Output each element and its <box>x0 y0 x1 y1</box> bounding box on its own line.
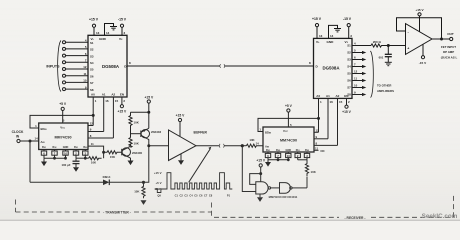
wire QA pin 12 <box>314 131 319 133</box>
mux U4 bottom pins <box>316 94 350 104</box>
+15V supply terminal (buffer) <box>176 114 186 118</box>
gate G1 NAND <box>256 182 268 194</box>
wire pin3 <box>121 27 123 35</box>
-15V supply terminal (mux U4 pin 3) <box>347 24 350 27</box>
wire +15V rail <box>148 103 150 128</box>
wire QB pin 9 <box>314 138 328 140</box>
node D out (pin 8) long line to receiver <box>124 61 318 69</box>
wire R9 tie bus <box>298 159 307 161</box>
resistor 15K (to Q1 base) <box>104 151 122 154</box>
node A0/QA junction <box>318 117 320 119</box>
ground (buffer) <box>180 154 182 160</box>
transistor Q2 2N4403 PNP <box>141 130 149 138</box>
ground (R0 bus) <box>43 158 45 161</box>
counter U5 MM74C90 (receiver) <box>263 127 314 152</box>
wire A0 <box>318 98 320 132</box>
wire buffer output <box>196 145 220 147</box>
wire feedback loop <box>397 18 442 39</box>
wire S1 to amplifier <box>352 45 371 47</box>
wire Q1 collector <box>129 144 131 148</box>
+15V supply terminal (op-amp) <box>415 8 424 12</box>
op-amp U3 BUFFER <box>169 130 197 161</box>
wire QC pin 8 <box>88 137 113 139</box>
capacitor 001 hold <box>387 46 389 55</box>
ground (pulldown) <box>141 200 147 205</box>
watermark <box>422 213 458 220</box>
wire base node <box>130 128 132 138</box>
line break symbol <box>219 144 224 148</box>
ground (100uF) <box>73 167 79 172</box>
wire collector node to diode line <box>144 146 149 183</box>
ground (Q1 emitter) <box>129 157 131 160</box>
input terminals S1-S8 with wires <box>63 41 89 91</box>
+15V supply terminal (gate input) <box>256 158 266 162</box>
wire A2 <box>337 98 339 145</box>
ground (R0 bus receiver) <box>267 160 269 162</box>
-15V supply terminal (mux U1 pin 3) <box>120 24 123 27</box>
-15V supply terminal (op-amp) <box>421 56 424 59</box>
wire A1 to counter QB <box>103 97 105 132</box>
resistor 10K (R9 to QD node) <box>89 157 102 160</box>
wire: transmission line D <box>127 65 220 67</box>
node QD junction <box>103 151 105 153</box>
node rail/resistor junction <box>148 111 150 113</box>
wire Q2 collector to buffer <box>148 139 149 146</box>
EN wire and +15V terminal <box>346 98 348 105</box>
wire R9 tie bus <box>76 157 89 159</box>
line break symbol <box>220 64 225 68</box>
CLOCK IN terminal <box>12 130 24 139</box>
multiplexer U4 DG508A (receiver) <box>314 38 353 98</box>
wire hook to gate input A <box>250 174 261 185</box>
wire output to OUT terminal <box>432 38 450 40</box>
node output junction <box>441 38 443 40</box>
wire A0 to counter QA <box>92 97 94 126</box>
node hold cap junction <box>387 45 389 47</box>
wire QD pin 11 <box>88 146 104 158</box>
wire gnd hook pin14 <box>329 25 338 38</box>
node clock junction <box>29 140 31 142</box>
wire R0/GND tie bus <box>44 157 66 159</box>
ground (gate G1) <box>259 194 261 197</box>
resistor 10K (Q2 base to Q1 collector) <box>129 138 132 148</box>
wire QA feedback to BD IN and A0 <box>258 118 319 131</box>
counter U2 MM74C90 (transmitter) <box>39 123 88 150</box>
capacitor 100uF <box>75 158 77 161</box>
resistor 10K (Q2 base pullup) <box>129 114 132 128</box>
arrows S2-S8 to other amplifiers <box>352 51 366 96</box>
INPUTS label and brace <box>46 65 60 69</box>
wire pin13 <box>93 27 95 35</box>
node A0/QA junction <box>92 114 94 116</box>
brace TO OTHER AMPLIFIERS <box>370 51 373 98</box>
dashed boundary TRANSMITTER <box>16 196 454 218</box>
counter U2 bottom pin stubs with boxed numbers <box>41 150 88 159</box>
wire QA feedback to BD IN and A0 <box>30 115 93 128</box>
wire QB pin 9 <box>88 131 104 133</box>
counter U5 bottom pin stubs with boxed numbers <box>265 152 309 160</box>
gate G2 NAND <box>280 183 291 194</box>
resistor 10K (sync to R9) <box>306 160 308 163</box>
ground (hold cap) <box>385 62 392 65</box>
wire A2 to counter QC <box>112 97 114 138</box>
node diode/pulldown junction <box>142 181 144 183</box>
bottom scan edge <box>0 220 460 221</box>
diode D1 1N914 <box>29 141 31 182</box>
wire QD pin 11 NC <box>314 149 319 151</box>
+5V supply terminal (counter U2 VCC) <box>59 102 67 106</box>
wire G2 out to 10K <box>292 187 307 189</box>
mux U1 bottom pins A0 A1 A2 EN <box>91 93 125 103</box>
pin numbers 4 5 6 7 12 11 10 9 and S labels <box>83 38 94 91</box>
resistor 200 ohm (sample line) <box>371 44 387 47</box>
ground (mux U4 pin 14) <box>334 29 341 32</box>
wire data line to gate input B <box>242 146 256 192</box>
ground (mux U1 pin 14) <box>110 27 117 30</box>
wire QA pin 12 <box>88 125 93 127</box>
+5V supply terminal (counter U5 VCC) <box>285 104 293 108</box>
transistor Q1 2N4400 NPN <box>122 148 130 156</box>
+15V supply terminal (mux U4 pin 13) <box>315 24 318 27</box>
EN wire and +15V terminal <box>121 97 123 105</box>
mux U4 right pins S1-S8 <box>347 42 357 97</box>
wire G1 out to G2 <box>271 187 280 189</box>
node receiver input junction <box>241 145 243 147</box>
wire gnd hook pin14 <box>105 24 114 36</box>
wire QC pin 8 <box>314 144 338 146</box>
callout arrow to line <box>189 149 211 182</box>
+15V supply terminal (Q2 emitter rail) <box>144 95 154 99</box>
wire A1 <box>327 98 329 138</box>
wire R0/GND tie bus <box>268 159 288 161</box>
wire clock to A IN <box>20 140 39 142</box>
wire VCC <box>62 111 64 124</box>
waveform diagram <box>155 173 233 193</box>
resistor 10K (A IN series) <box>242 145 246 147</box>
node gate input junction <box>260 173 262 175</box>
multiplexer U1 DG508A (transmitter) <box>88 35 127 97</box>
resistor 10K pulldown <box>142 182 145 198</box>
+15V supply terminal (mux U1 pin 13) <box>92 24 95 27</box>
op-amp U6 FET input <box>406 24 433 55</box>
